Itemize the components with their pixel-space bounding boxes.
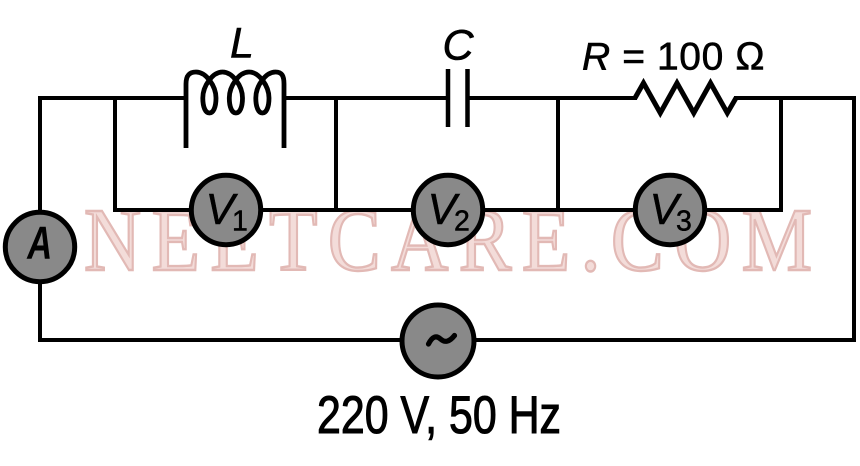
svg-text:A: A <box>26 217 52 269</box>
svg-text:3: 3 <box>676 206 692 238</box>
svg-text:220 V, 50 Hz: 220 V, 50 Hz <box>317 386 561 445</box>
svg-text:2: 2 <box>454 206 470 238</box>
svg-text:C: C <box>442 21 474 69</box>
svg-text:1: 1 <box>232 206 248 238</box>
svg-text:L: L <box>230 19 254 67</box>
svg-text:R = 100 Ω: R = 100 Ω <box>582 36 765 79</box>
